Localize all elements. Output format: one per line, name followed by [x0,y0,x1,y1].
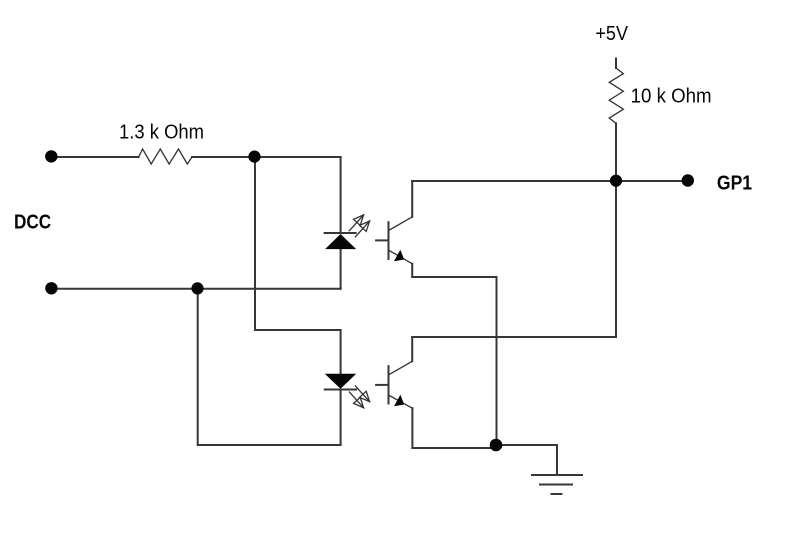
transistor Q2 emitter arrowhead [394,395,404,406]
opto light arrow 2 head (bottom) [360,391,370,401]
opto light arrow 1 head (top) [354,215,364,225]
transistor Q1 collector diagonal [390,217,413,230]
LED D2 triangle [325,374,356,389]
transistor Q1 base stub [376,239,388,241]
resistor R2 10 k Ohm zigzag [609,68,623,123]
transistor Q2 base bar [388,366,390,403]
wire: resistor R2 to output node [615,123,617,181]
opto light arrow 1 head (bottom) [354,397,364,407]
ground bar 1 [532,474,582,476]
wire: LED D1 anode lead down to DCC bottom wire [340,249,342,289]
wire: ground node to ground symbol [496,445,557,475]
transistor Q1 base bar [388,222,390,259]
wire: output node down to Q2 collector rail [412,181,616,337]
svg-text:+5V: +5V [595,23,628,45]
terminal dot GP1 [682,174,694,186]
node A junction dot [248,151,260,163]
transistor Q1 emitter lead [411,264,413,277]
opto light arrow 2 shaft (bottom) [355,386,369,402]
LED D1 triangle [325,234,356,249]
transistor Q2 collector diagonal [390,361,413,374]
resistor R1 1.3 k Ohm zigzag [139,149,192,164]
wire: Q1 emitter across and down to ground node [412,277,496,445]
wire: DCC bottom terminal to LED D1 anode [51,288,341,290]
transistor Q2 base stub [376,384,388,386]
transistor Q1 emitter diagonal [390,251,413,264]
wire: LED D2 anode lead up [340,330,342,374]
svg-text:DCC: DCC [14,212,51,234]
output node junction dot [610,175,622,187]
wire: Q2 emitter to ground node [412,447,493,449]
opto light arrow 1 shaft (bottom) [349,392,363,408]
wire: +5V lead [615,59,617,69]
svg-text:GP1: GP1 [717,172,752,194]
transistor Q2 collector lead [411,337,413,361]
wire: node A to LED D1 top [255,156,341,158]
transistor Q1 emitter arrowhead [394,250,404,261]
transistor Q1 collector lead [411,181,413,217]
LED D2 cathode bar [325,389,356,391]
terminal dot DCC top [45,150,57,162]
terminal dot DCC bottom [45,282,57,294]
ground node junction dot [490,439,503,452]
wire: node A down and across to LED D2 anode [255,157,341,330]
wire: node B down and across to LED D2 cathode [198,289,341,445]
ground bar 3 [552,493,562,495]
wire: output net top rail [412,180,616,182]
opto light arrow 2 shaft (top) [355,221,369,237]
wire: LED D2 cathode lead [340,391,342,446]
transistor Q2 emitter lead [411,408,413,448]
wire: output node to GP1 terminal [616,180,688,182]
opto light arrow 1 shaft (top) [349,215,363,231]
transistor Q2 emitter diagonal [390,396,413,409]
svg-text:1.3 k Ohm: 1.3 k Ohm [119,122,204,144]
ground bar 2 [540,484,572,486]
node B junction dot [191,282,203,294]
wire: resistor R1 to node A [192,156,255,158]
svg-text:10 k Ohm: 10 k Ohm [631,86,712,108]
opto light arrow 2 head (top) [360,221,370,231]
wire: DCC top terminal to resistor R1 [51,156,139,158]
wire: LED D1 cathode lead [340,157,342,233]
LED D1 cathode bar [325,232,356,234]
